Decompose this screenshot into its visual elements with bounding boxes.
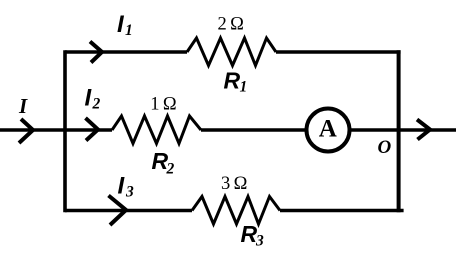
svg-text:3: 3	[125, 183, 134, 200]
svg-text:3Ω: 3Ω	[221, 174, 251, 194]
svg-text:I: I	[118, 172, 126, 199]
svg-text:I: I	[117, 11, 125, 38]
svg-text:3: 3	[255, 233, 264, 250]
svg-text:R: R	[241, 221, 258, 247]
svg-text:2Ω: 2Ω	[218, 14, 248, 34]
svg-text:I: I	[85, 85, 93, 112]
svg-text:1: 1	[240, 79, 248, 96]
svg-text:O: O	[378, 137, 392, 158]
svg-text:R: R	[224, 68, 241, 94]
svg-text:2: 2	[166, 161, 175, 178]
svg-text:A: A	[319, 116, 337, 143]
svg-text:1: 1	[125, 22, 133, 39]
svg-text:2: 2	[92, 96, 101, 113]
svg-text:I: I	[18, 94, 28, 118]
svg-text:1Ω: 1Ω	[150, 94, 180, 114]
